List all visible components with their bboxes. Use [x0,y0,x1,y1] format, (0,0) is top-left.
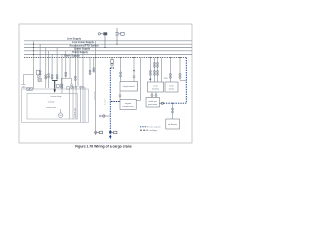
svg-text:Lock/gas: Lock/gas [149,130,159,132]
svg-text:generator: generator [148,103,158,106]
svg-text:crane wire: crane wire [93,91,96,100]
svg-text:engine: engine [125,103,132,105]
svg-text:control: control [48,100,55,103]
svg-text:crane unit: crane unit [46,106,56,109]
svg-text:relay/control: relay/control [123,85,135,88]
svg-text:Figure 1.76 Wiring of a cargo: Figure 1.76 Wiring of a cargo crane [75,145,132,149]
svg-text:monitor: monitor [152,87,160,90]
svg-text:air blower: air blower [168,123,178,126]
svg-text:crane relay: crane relay [51,95,63,98]
svg-text:lcd wire: lcd wire [104,99,107,105]
svg-text:M: M [60,115,62,117]
svg-text:LCD outputs: LCD outputs [149,126,162,129]
svg-text:compressor: compressor [122,105,134,108]
svg-text:weld gas: weld gas [148,101,158,103]
svg-text:meter: meter [169,87,175,90]
svg-text:LCD: LCD [153,85,158,87]
svg-text:Live Supply: Live Supply [67,37,82,40]
svg-text:LCD: LCD [169,85,174,87]
